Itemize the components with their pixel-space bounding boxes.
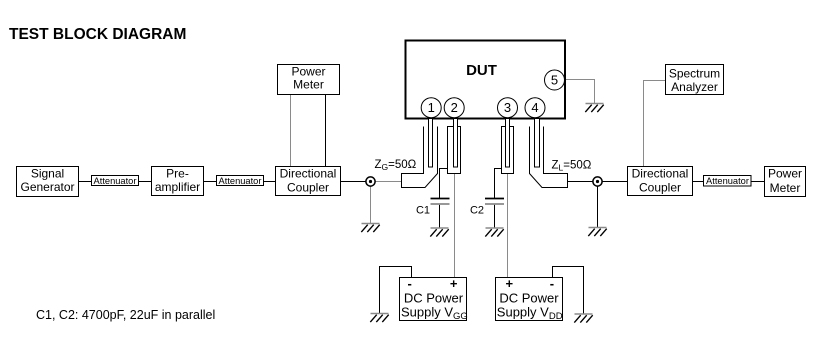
svg-text:Signal: Signal (31, 166, 64, 180)
svg-text:3: 3 (504, 100, 511, 115)
svg-text:+: + (506, 276, 514, 291)
svg-text:Power: Power (768, 166, 802, 180)
svg-text:-: - (408, 276, 412, 291)
svg-text:DC Power: DC Power (404, 291, 464, 306)
svg-text:ZL=50Ω: ZL=50Ω (552, 160, 592, 173)
svg-text:Meter: Meter (293, 77, 324, 91)
svg-text:Attenuator: Attenuator (94, 176, 137, 186)
svg-text:C1: C1 (416, 205, 430, 217)
svg-text:Spectrum: Spectrum (669, 66, 720, 80)
svg-text:Power: Power (291, 64, 325, 78)
svg-text:C1, C2: 4700pF, 22uF in parall: C1, C2: 4700pF, 22uF in parallel (36, 308, 215, 322)
svg-text:amplifier: amplifier (155, 180, 200, 194)
svg-text:Coupler: Coupler (287, 180, 329, 194)
svg-text:Attenuator: Attenuator (706, 176, 749, 186)
svg-text:Pre-: Pre- (166, 166, 189, 180)
svg-text:DUT: DUT (466, 62, 497, 79)
svg-text:Coupler: Coupler (639, 180, 681, 194)
svg-text:Analyzer: Analyzer (671, 80, 718, 94)
svg-text:Directional: Directional (280, 166, 337, 180)
svg-text:2: 2 (451, 100, 458, 115)
svg-text:DC Power: DC Power (499, 291, 559, 306)
svg-text:Directional: Directional (632, 166, 689, 180)
svg-text:ZG=50Ω: ZG=50Ω (375, 159, 417, 172)
svg-text:4: 4 (531, 100, 538, 115)
svg-text:Meter: Meter (770, 181, 801, 195)
svg-text:Attenuator: Attenuator (219, 176, 262, 186)
svg-text:C2: C2 (470, 205, 484, 217)
svg-text:+: + (450, 276, 458, 291)
svg-text:Generator: Generator (20, 180, 74, 194)
svg-text:-: - (550, 276, 554, 291)
svg-text:1: 1 (428, 100, 435, 115)
svg-text:TEST BLOCK DIAGRAM: TEST BLOCK DIAGRAM (9, 26, 186, 43)
svg-text:5: 5 (551, 72, 558, 87)
